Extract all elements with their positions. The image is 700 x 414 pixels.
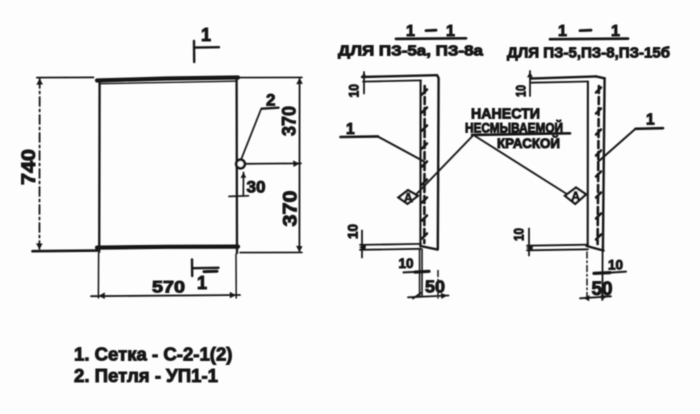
bar outline — [587, 76, 605, 250]
leader label 1 of section 2 — [598, 112, 663, 163]
svg-text:А: А — [404, 191, 413, 205]
connector loop to dim line — [245, 162, 301, 164]
dim 10 bottom of section 2 — [594, 257, 626, 274]
note leader to diamond A left — [417, 136, 474, 195]
svg-text:А: А — [571, 189, 580, 203]
svg-text:ДЛЯ ПЗ-5,ПЗ-8,ПЗ-15б: ДЛЯ ПЗ-5,ПЗ-8,ПЗ-15б — [507, 45, 670, 62]
dash-dot extension below bar 2 — [586, 252, 588, 297]
extension below bar — [419, 249, 421, 297]
svg-text:1: 1 — [201, 25, 211, 45]
svg-text:740: 740 — [19, 149, 40, 185]
svg-text:ДЛЯ ПЗ-5а, ПЗ-8а: ДЛЯ ПЗ-5а, ПЗ-8а — [338, 43, 484, 60]
panel top edge (thick) — [97, 78, 238, 84]
svg-text:30: 30 — [247, 178, 266, 197]
svg-text:10: 10 — [399, 255, 414, 271]
dim 10 bottom-left of section 1 — [345, 224, 363, 258]
dim 10 top-left of section 1 — [346, 72, 367, 98]
note leader to diamond A right — [475, 136, 566, 194]
svg-text:10: 10 — [346, 84, 362, 98]
svg-text:10: 10 — [608, 257, 623, 273]
dim 10 bottom of section 1 — [399, 255, 430, 272]
bar outline — [420, 75, 438, 249]
svg-text:570: 570 — [152, 279, 185, 297]
svg-text:1: 1 — [646, 112, 655, 129]
dash-dot extension — [437, 271, 439, 299]
bottom flange double line of section 1 — [359, 244, 421, 251]
svg-text:370: 370 — [281, 191, 302, 227]
svg-text:10: 10 — [513, 85, 529, 97]
diamond A of section 1 — [399, 190, 418, 205]
svg-text:10: 10 — [345, 224, 361, 239]
handwritten note — [465, 106, 570, 152]
dim 10 bottom-left of section 2 — [511, 228, 530, 256]
svg-text:10: 10 — [511, 228, 527, 241]
svg-text:370: 370 — [280, 106, 301, 136]
bottom flange double line of section 2 — [526, 245, 588, 252]
dim 740 line (dashed, left) — [33, 77, 98, 251]
dim 50 of section 2 — [580, 279, 613, 301]
mesh line (dashed) in bar 2 — [596, 86, 601, 244]
svg-text:1: 1 — [197, 273, 207, 293]
svg-text:2: 2 — [266, 91, 275, 110]
panel right edge — [235, 78, 238, 253]
solid extension below bar 2 — [601, 250, 603, 300]
panel left edge — [98, 81, 101, 252]
dim 10 top-left of section 2 — [513, 71, 533, 97]
svg-text:КРАСКОЙ: КРАСКОЙ — [497, 136, 560, 151]
dim 570 (bottom) — [91, 253, 240, 299]
section mark 1 (bottom) — [192, 260, 219, 294]
top flange double line — [362, 75, 437, 81]
diamond A of section 2 — [565, 188, 586, 204]
leader label 1 of section 1 — [341, 121, 425, 162]
svg-text:1: 1 — [558, 23, 567, 40]
label 2 (loop callout) — [242, 91, 279, 159]
mesh line (dashed) in bar — [422, 86, 427, 243]
svg-text:2. Петля - УП1-1: 2. Петля - УП1-1 — [74, 365, 218, 386]
dim line 370/370 (right) — [240, 77, 303, 252]
section mark 1 (top) — [194, 25, 219, 62]
panel bottom edge (thick) — [97, 247, 238, 248]
dim 30 (loop offset) — [229, 173, 266, 197]
svg-text:1: 1 — [346, 121, 355, 138]
svg-text:1. Сетка - С-2-1(2): 1. Сетка - С-2-1(2) — [74, 344, 233, 365]
dim 50 of section 1 — [408, 277, 449, 299]
top flange double line — [531, 76, 597, 82]
loop circle (петля) on right edge — [236, 160, 245, 169]
